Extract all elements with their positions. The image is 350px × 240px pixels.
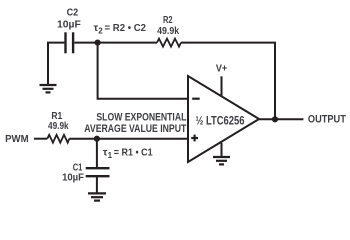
resistor R1 [47, 135, 69, 143]
svg-text:PWM: PWM [5, 133, 29, 145]
wire output: apex to OUTPUT stub [259, 118, 303, 120]
wire PWM to R1 [34, 138, 47, 140]
resistor R2 [157, 39, 181, 47]
wire R1 to non-inverting input [69, 138, 188, 140]
svg-text:1: 1 [108, 151, 113, 160]
node (bottom junction, τ1 tap) [94, 136, 100, 142]
capacitor C1 [86, 168, 110, 176]
svg-text:SLOW EXPONENTIAL: SLOW EXPONENTIAL [96, 111, 186, 123]
svg-text:49.9k: 49.9k [157, 25, 179, 37]
capacitor C2 [66, 32, 74, 53]
svg-text:C2: C2 [67, 7, 79, 19]
ground (op-amp) [213, 157, 230, 164]
label τ2 = R2 • C2 [94, 22, 147, 35]
ground (top-left, below C2 input) [40, 85, 57, 92]
wire bottom junction down to C1 [96, 139, 98, 169]
svg-text:10µF: 10µF [62, 171, 84, 183]
svg-text:49.9k: 49.9k [48, 120, 69, 132]
node (output junction) [272, 116, 278, 122]
wire top rail left: ground riser to C2 left plate [48, 43, 64, 85]
ground (below C1) [88, 193, 106, 200]
svg-text:= R1 • C1: = R1 • C1 [114, 147, 153, 159]
op-amp U1 (½ LTC6256) triangle [188, 76, 259, 162]
power pin V+ lead [221, 76, 223, 96]
wire R2 to top-right corner, down to output node [181, 43, 275, 120]
non-inverting input marker + [191, 135, 198, 142]
label SLOW EXPONENTIAL AVERAGE VALUE INPUT [84, 111, 186, 134]
inverting input marker − [192, 98, 200, 100]
label τ1 = R1 • C1 [103, 147, 153, 160]
svg-text:OUTPUT: OUTPUT [308, 113, 346, 125]
wire feedback: top junction down and right to inverting input [98, 43, 188, 99]
node (top junction, feedback tap) [95, 40, 101, 46]
svg-text:10µF: 10µF [57, 19, 81, 31]
svg-text:½ LTC6256: ½ LTC6256 [196, 114, 245, 128]
svg-text:AVERAGE VALUE INPUT: AVERAGE VALUE INPUT [84, 123, 186, 135]
wire op-amp ground lead [221, 143, 223, 157]
svg-text:2: 2 [98, 26, 103, 35]
svg-text:V+: V+ [216, 63, 227, 75]
wire C2 right plate to top junction and on to R2 [74, 42, 157, 44]
wire C1 bottom plate to ground [96, 176, 98, 193]
svg-text:= R2 • C2: = R2 • C2 [105, 22, 147, 34]
